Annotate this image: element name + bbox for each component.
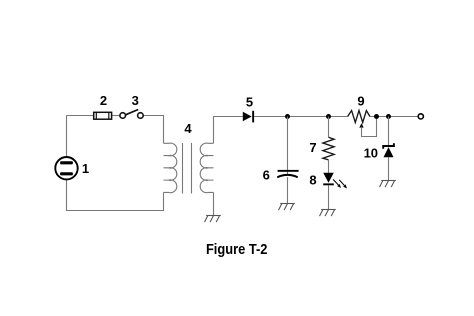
svg-text:5: 5 <box>246 95 253 110</box>
ground below zener <box>380 181 396 188</box>
output terminal <box>418 114 423 119</box>
wire node to zener <box>388 117 390 147</box>
ground below LED <box>320 210 336 217</box>
potentiometer R2 (9) <box>348 111 370 123</box>
LED emission arrows <box>333 179 347 188</box>
svg-text:4: 4 <box>184 121 192 136</box>
node wiper junction <box>374 114 379 119</box>
wire top-left from source to fuse <box>67 115 95 117</box>
wire secondary top to diode <box>214 117 243 144</box>
wire diode to resistor 9 <box>254 116 348 118</box>
svg-text:8: 8 <box>309 173 316 188</box>
ground below transformer secondary <box>205 216 221 223</box>
transformer T1 (4) primary winding <box>164 143 177 193</box>
wire node to resistor 7 <box>328 117 330 138</box>
svg-text:7: 7 <box>309 140 316 155</box>
svg-text:9: 9 <box>357 94 364 109</box>
potentiometer wiper arrow <box>359 117 376 137</box>
wire resistor 7 to LED <box>328 160 330 173</box>
switch S (3) <box>120 110 143 119</box>
node at capacitor tap <box>285 114 290 119</box>
LED DS1 (8) <box>323 173 334 185</box>
node at resistor 7 tap <box>326 114 331 119</box>
svg-text:10: 10 <box>364 146 378 161</box>
capacitor C1 (6) <box>277 170 298 177</box>
wire resistor 9 to terminal <box>370 116 418 118</box>
node zener junction <box>386 114 391 119</box>
svg-text:6: 6 <box>263 167 270 182</box>
wire left side of loop through source <box>67 116 164 211</box>
transformer core <box>183 143 192 194</box>
fuse F (2) <box>94 112 112 119</box>
diode CR1 (5) <box>243 111 254 123</box>
wire LED to ground <box>328 185 330 209</box>
svg-text:1: 1 <box>82 161 89 176</box>
transformer secondary winding <box>200 143 213 193</box>
wire capacitor to ground <box>287 177 289 203</box>
svg-text:3: 3 <box>132 93 139 108</box>
wire node to capacitor <box>287 117 289 176</box>
wire switch to transformer primary top <box>143 116 163 144</box>
wire fuse to switch <box>112 115 120 117</box>
zener diode VR1 (10) <box>383 143 394 157</box>
wire zener to ground <box>388 157 390 180</box>
svg-text:Figure T-2: Figure T-2 <box>206 241 268 258</box>
ground below capacitor <box>279 204 295 211</box>
AC source (1) <box>55 157 77 179</box>
resistor R1 (7) <box>323 137 334 160</box>
svg-text:2: 2 <box>100 93 107 108</box>
wire secondary bottom to ground <box>213 192 215 215</box>
